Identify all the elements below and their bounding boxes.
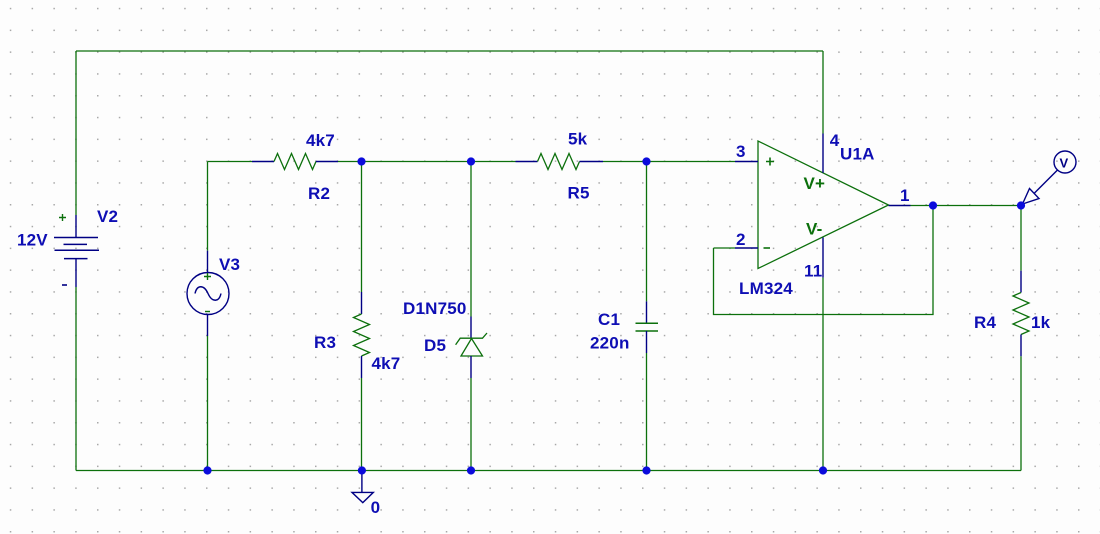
svg-text:4k7: 4k7: [306, 131, 335, 150]
svg-text:4: 4: [830, 131, 840, 150]
label pin 11: [804, 262, 822, 281]
label 1k: [1031, 313, 1051, 332]
label 4k7 R2 value: [306, 131, 335, 150]
label D5: [424, 336, 446, 355]
svg-text:V3: V3: [219, 255, 240, 274]
label pin 4: [830, 131, 840, 150]
label R3: [314, 333, 336, 352]
junction node C1 bottom: [642, 466, 650, 474]
wire feedback loop: [714, 206, 934, 315]
svg-text:C1: C1: [598, 310, 620, 329]
label pin 3: [736, 142, 746, 161]
capacitor C1: [636, 301, 659, 353]
zener diode D5: [456, 317, 487, 379]
resistor R4: [1013, 271, 1029, 357]
wire op-amp V- supply to bottom rail: [822, 278, 824, 471]
battery V2: [54, 214, 99, 287]
label 220n: [590, 334, 630, 353]
label 0: [371, 498, 381, 517]
junction node R3 top: [357, 157, 365, 165]
sine source V3: [187, 251, 229, 336]
label 5k: [568, 130, 588, 149]
junction node V- bottom: [819, 466, 827, 474]
resistor R5: [516, 154, 604, 170]
svg-text:D5: D5: [424, 336, 446, 355]
junction node C1 top: [642, 157, 650, 165]
junction node probe: [1017, 201, 1025, 209]
svg-text:LM324: LM324: [739, 279, 793, 298]
label R4: [974, 313, 996, 332]
label C1: [598, 310, 620, 329]
wire left vertical: [75, 51, 77, 471]
svg-text:V: V: [1060, 156, 1069, 171]
wire bottom rail: [76, 470, 1021, 472]
voltage probe: [1023, 151, 1077, 204]
label V+: [804, 174, 826, 193]
svg-text:0: 0: [371, 498, 381, 517]
wire C1 branch vertical: [646, 162, 648, 471]
svg-text:5k: 5k: [568, 130, 588, 149]
svg-text:12V: 12V: [17, 231, 48, 250]
label D1N750: [403, 299, 467, 318]
label V2: [97, 207, 118, 226]
svg-text:3: 3: [736, 142, 746, 161]
label pin 1: [900, 186, 910, 205]
label LM324: [739, 279, 793, 298]
svg-text:V+: V+: [804, 174, 826, 193]
label V-: [806, 220, 822, 239]
junction node V3 bottom: [203, 466, 211, 474]
junction node output: [929, 201, 937, 209]
op-amp U1A: [735, 134, 911, 278]
ground: [352, 471, 373, 503]
label 4k7 R3 value: [372, 354, 401, 373]
wire D5 branch vertical: [470, 162, 472, 471]
label V3: [219, 255, 240, 274]
svg-text:1k: 1k: [1031, 313, 1051, 332]
label 12V: [17, 231, 48, 250]
svg-text:220n: 220n: [590, 334, 630, 353]
resistor R2: [252, 154, 338, 170]
wire V3 branch vertical: [207, 162, 209, 471]
svg-text:D1N750: D1N750: [403, 299, 467, 318]
wire top rail: [76, 50, 823, 52]
svg-text:R5: R5: [568, 184, 590, 203]
svg-text:4k7: 4k7: [372, 354, 401, 373]
label R2: [308, 184, 330, 203]
wire R3 branch vertical: [361, 162, 363, 471]
svg-text:V-: V-: [806, 220, 822, 239]
wire input rail horizontal: [208, 161, 736, 163]
svg-text:U1A: U1A: [840, 145, 875, 164]
wire inverting input feedback: [714, 247, 736, 249]
svg-text:V2: V2: [97, 207, 118, 226]
junction node ground: [358, 466, 366, 474]
junction node D5 top: [467, 157, 475, 165]
svg-text:R3: R3: [314, 333, 336, 352]
svg-text:R4: R4: [974, 313, 996, 332]
svg-text:11: 11: [804, 262, 822, 281]
resistor R3: [354, 292, 370, 378]
svg-text:2: 2: [736, 230, 746, 249]
svg-text:1: 1: [900, 186, 910, 205]
label R5: [568, 184, 590, 203]
wire R4 branch vertical: [1020, 206, 1022, 471]
wire output horizontal: [911, 205, 1022, 207]
wire op-amp V+ supply from top rail: [822, 51, 824, 134]
label U1A: [840, 145, 875, 164]
svg-text:R2: R2: [308, 184, 330, 203]
junction node D5 bottom: [467, 466, 475, 474]
label pin 2: [736, 230, 746, 249]
